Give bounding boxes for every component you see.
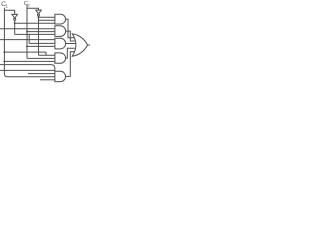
- node dot C2 tap G3c rail: [26, 45, 28, 47]
- wire rail G1 input b: [39, 19, 55, 21]
- node dot C2bar tap G1a rail: [38, 16, 40, 18]
- wire rail G4 input a: [39, 54, 55, 56]
- svg-text:1: 1: [5, 4, 8, 9]
- inverter U1 (C1 bar): [12, 14, 18, 18]
- wire G1 output to OR input 1: [66, 19, 75, 38]
- wire rail from C1 tap with jog to G4 input a: [4, 52, 46, 55]
- inverter U2 bubble: [37, 14, 39, 16]
- wire data rail D2 to G3 input a: [0, 39, 55, 41]
- inverter U2 (C2 bar): [36, 10, 42, 14]
- node dot C1 tap G4a rail: [3, 51, 5, 53]
- node dot C1 tap G4c rail: [3, 60, 5, 62]
- wire rail G5 input c: [40, 79, 55, 81]
- wire G5 output to OR input 5: [66, 52, 75, 77]
- wire rail G2 input b: [27, 31, 55, 33]
- wire C2 vertical ending into G4b rail: [26, 5, 28, 58]
- wire G4 output to OR input 4: [66, 48, 75, 58]
- and-gate G3: [55, 38, 66, 49]
- wire rail G2 input c: [15, 33, 55, 35]
- wire data rail D4: [0, 69, 55, 71]
- wire G3 output to OR input 3: [66, 43, 76, 45]
- inverter U1 bubble: [14, 18, 16, 20]
- node C1 label: [1, 1, 8, 9]
- wire rail G3 input c: [27, 45, 55, 47]
- svg-text:2: 2: [28, 2, 30, 7]
- and-gate G5: [55, 71, 66, 81]
- node C2 label: [24, 1, 30, 7]
- wire rail G1 input a: [39, 16, 55, 18]
- wire C2 branch to inverter U2: [27, 8, 39, 10]
- wire rail G3 input b: [29, 42, 55, 44]
- wire jog from G2c rail down to G3 input b: [28, 34, 30, 43]
- wire C1 vertical with bend into G5 rail: [4, 8, 55, 77]
- wire rail G4 input c: [4, 60, 55, 62]
- wire data rail D3 bending down to G5 corner: [0, 65, 55, 72]
- wire rail G5 input a: [28, 73, 55, 75]
- node dot C2 tap G2b rail: [26, 31, 28, 33]
- wire output F: [88, 44, 90, 46]
- wire C1bar vertical ending into G2c rail: [14, 20, 16, 34]
- wire C1 branch to inverter U1: [4, 10, 14, 14]
- node dot C1bar tap G1c rail: [14, 22, 16, 24]
- and-gate G2: [55, 26, 66, 37]
- and-gate G4: [55, 53, 66, 63]
- and-gate G1: [55, 14, 66, 24]
- wire C2bar vertical ending into G4a rail: [38, 16, 40, 55]
- wire data rail D1 to G2 input a: [0, 28, 55, 30]
- wire rail G1 input c: [15, 22, 55, 24]
- wire rail G4 input b: [27, 57, 55, 59]
- or-gate U3: [72, 34, 87, 56]
- wire G2 output to OR input 2: [66, 31, 75, 41]
